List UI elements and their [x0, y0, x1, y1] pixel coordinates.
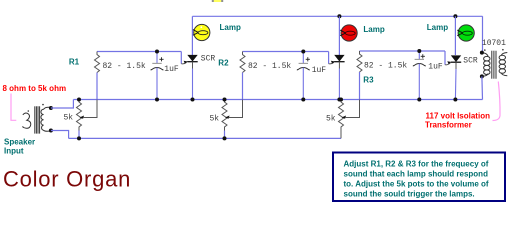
- wire lamp3 drop: [454, 16, 456, 55]
- cropped lamp fragment top: [212, 0, 223, 2]
- svg-text:sound the sould trigger the la: sound the sould trigger the lamps.: [344, 189, 475, 198]
- node lamp2 top: [337, 14, 341, 18]
- stage 1 mid rail: [97, 51, 181, 53]
- lamp L3 (green): [457, 25, 474, 41]
- wire T1 bottom to rail B: [51, 131, 69, 139]
- svg-text:1uF: 1uF: [164, 65, 179, 74]
- note text: [344, 159, 489, 198]
- pot P2 5k: [222, 100, 243, 139]
- svg-text:Adjust R1, R2 & R3 for the fre: Adjust R1, R2 & R3 for the frequecy of: [344, 159, 489, 168]
- svg-text:Speaker: Speaker: [4, 137, 35, 146]
- capacitor C2 1uF: [297, 52, 310, 100]
- svg-text:R2: R2: [218, 58, 229, 67]
- svg-text:1uF: 1uF: [312, 66, 327, 75]
- svg-text:R1: R1: [69, 58, 80, 67]
- svg-text:5k: 5k: [326, 115, 336, 124]
- node T1 secondary top: [49, 106, 53, 110]
- svg-text:5k: 5k: [64, 114, 74, 123]
- node P1 top: [77, 98, 81, 102]
- rail A (cathode bus): [73, 99, 482, 101]
- node SCR1 cathode rail: [191, 98, 195, 102]
- pot P3 5k: [339, 100, 360, 139]
- capacitor C3 1uF: [413, 51, 425, 100]
- stage 2 mid rail: [243, 51, 329, 53]
- svg-text:82 - 1.5k: 82 - 1.5k: [364, 62, 407, 71]
- svg-text:10701: 10701: [482, 39, 506, 48]
- svg-text:Transformer: Transformer: [425, 121, 472, 130]
- svg-text:117 volt Isolation: 117 volt Isolation: [426, 111, 491, 120]
- node P1 bottom: [77, 136, 81, 140]
- top rail wire: [192, 15, 482, 17]
- SCR3: [451, 55, 461, 99]
- wire lamp2 drop: [338, 16, 340, 55]
- note box: [333, 153, 505, 202]
- callout line to T2: [493, 82, 501, 121]
- svg-text:8 ohm to 5k ohm: 8 ohm to 5k ohm: [3, 84, 67, 93]
- speaker transformer T1: [22, 104, 51, 134]
- svg-text:Color Organ: Color Organ: [3, 166, 131, 191]
- lamp L2 (red): [340, 25, 357, 41]
- SCR1: [187, 55, 197, 100]
- stage 3 mid rail: [360, 50, 446, 52]
- node SCR3 cathode rail: [453, 98, 457, 102]
- rail B (bottom bus): [69, 137, 341, 139]
- node C2 bottom: [301, 98, 305, 102]
- svg-text:Lamp: Lamp: [427, 23, 448, 32]
- wire to isolation transformer primary: [481, 16, 484, 52]
- node T2 primary bottom: [480, 74, 484, 78]
- wire lamp1 drop: [191, 16, 193, 55]
- wire T1 top to rail A: [51, 100, 74, 109]
- SCR3 gate wire: [445, 51, 452, 65]
- svg-text:SCR: SCR: [463, 57, 478, 66]
- svg-text:sound that each lamp should re: sound that each lamp should respond: [344, 169, 489, 178]
- svg-text:Lamp: Lamp: [363, 25, 384, 34]
- node T1 secondary bottom: [49, 129, 53, 133]
- node lamp3 top: [453, 14, 457, 18]
- isolation transformer T2: [482, 49, 507, 79]
- node C3 top: [417, 49, 421, 53]
- resistor R3 82-1.5k: [357, 51, 362, 100]
- callout line to T1: [11, 94, 16, 121]
- svg-text:Input: Input: [4, 147, 24, 156]
- pot P1 5k: [77, 100, 98, 139]
- capacitor C1 1uF: [151, 52, 164, 100]
- resistor R2 82-1.5k: [240, 52, 245, 100]
- SCR2: [334, 55, 344, 100]
- node C2 top: [301, 50, 305, 54]
- node P3 top: [339, 98, 343, 102]
- wire T2 primary bottom to rail A: [481, 76, 484, 99]
- svg-text:SCR: SCR: [201, 55, 216, 64]
- svg-text:5k: 5k: [210, 115, 220, 124]
- svg-text:to. Adjust the 5k pots to the: to. Adjust the 5k pots to the volume of: [344, 179, 489, 188]
- resistor R1 82-1.5k: [95, 52, 100, 100]
- svg-text:82 - 1.5k: 82 - 1.5k: [248, 62, 291, 71]
- SCR2 gate wire: [329, 52, 336, 64]
- node T2 primary top: [480, 51, 484, 55]
- node C1 top: [155, 50, 159, 54]
- lamp L1 (yellow): [193, 24, 210, 40]
- svg-text:82 - 1.5k: 82 - 1.5k: [103, 62, 146, 71]
- svg-text:R3: R3: [363, 75, 374, 84]
- node C1 bottom: [155, 98, 159, 102]
- svg-text:1uF: 1uF: [428, 63, 443, 72]
- node P2 bottom: [223, 136, 227, 140]
- svg-text:Lamp: Lamp: [220, 23, 241, 32]
- SCR1 gate wire: [181, 52, 188, 64]
- node P2 top: [223, 98, 227, 102]
- node SCR2 cathode rail: [337, 98, 341, 102]
- node C3 bottom: [417, 98, 421, 102]
